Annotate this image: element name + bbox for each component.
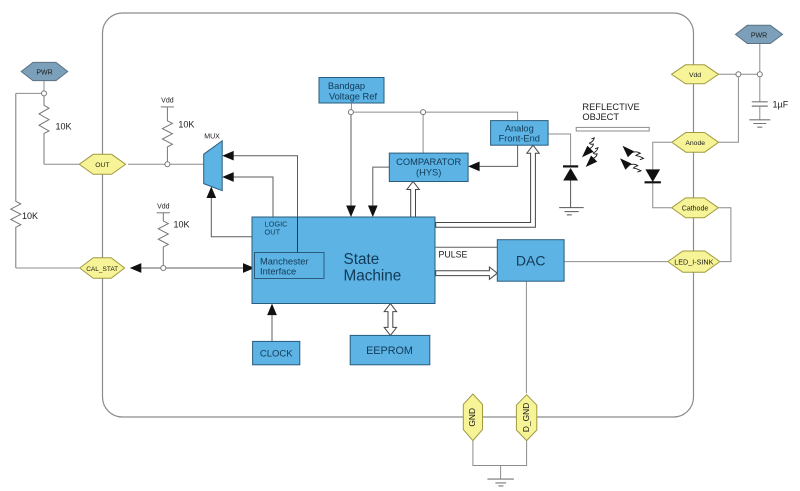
PWR terminal (left): [21, 62, 67, 80]
pin Anode: [672, 133, 719, 153]
svg-text:Cathode: Cathode: [682, 206, 709, 213]
svg-text:OBJECT: OBJECT: [582, 112, 619, 122]
svg-text:MUX: MUX: [204, 134, 220, 141]
wire photodiode to ground: [570, 181, 572, 208]
arrowhead into comparator right: [468, 162, 480, 172]
capacitor C1 plates: [752, 102, 768, 120]
pin D_GND (rotated): [516, 395, 536, 441]
wire LED to Cathode: [653, 182, 672, 208]
arrowhead into SM from comparator: [368, 206, 378, 218]
wire to capacitor C1: [759, 77, 761, 102]
hollow arrow SM to COMPARATOR: [407, 182, 419, 218]
svg-text:Machine: Machine: [344, 267, 402, 284]
light ray into photodiode A: [582, 138, 594, 157]
junction node (Vdd row 1): [736, 72, 741, 77]
hollow arrow SM to DAC: [436, 267, 498, 279]
wire PULSE: [436, 246, 498, 248]
wire Bandgap stem: [350, 103, 352, 110]
State Machine box U1: [252, 217, 435, 304]
svg-text:EEPROM: EEPROM: [366, 345, 413, 357]
ground symbol (bottom): [487, 479, 514, 486]
svg-text:Interface: Interface: [260, 267, 296, 277]
Analog Front-End box: [491, 121, 548, 146]
wire junction2 to comparator top: [422, 115, 424, 154]
svg-text:PWR: PWR: [36, 70, 52, 77]
svg-text:LED_I-SINK: LED_I-SINK: [674, 257, 713, 266]
arrowhead MUX input2: [222, 172, 234, 182]
wire R1 to OUT: [44, 163, 80, 165]
svg-text:Analog: Analog: [505, 123, 534, 133]
COMPARATOR (HYS) box: [389, 153, 468, 181]
resistor R3 10K (Vdd pull-up to OUT): [162, 107, 172, 162]
svg-text:PWR: PWR: [751, 32, 767, 39]
svg-text:Vdd: Vdd: [157, 204, 170, 211]
svg-text:Vdd: Vdd: [161, 98, 174, 105]
wire R2 to CAL_STAT: [16, 267, 80, 269]
wire DAC to LED_I-SINK: [564, 261, 668, 263]
EEPROM box: [350, 335, 430, 364]
wire Anode to LED: [653, 142, 672, 169]
arrowhead CLOCK: [267, 304, 277, 316]
CLOCK box: [253, 341, 300, 364]
DAC box: [497, 240, 564, 282]
wire AFE to photodiode: [548, 134, 571, 165]
IC boundary rounded rectangle: [103, 13, 694, 417]
pin OUT: [79, 154, 125, 174]
junction node (Vdd row 2): [757, 72, 762, 77]
junction node (OUT row): [165, 162, 170, 167]
pin LED_I-SINK: [668, 251, 720, 272]
light ray from LED A: [623, 146, 644, 160]
light ray into photodiode B: [586, 148, 598, 167]
svg-text:(HYS): (HYS): [416, 168, 441, 178]
svg-text:Bandgap: Bandgap: [328, 81, 365, 91]
wire CLOCK to State Machine: [271, 315, 273, 342]
svg-text:CAL_STAT: CAL_STAT: [86, 266, 118, 273]
light ray from LED B: [620, 158, 641, 172]
wire Cathode loop to LED_I-SINK: [718, 208, 731, 262]
svg-text:PULSE: PULSE: [439, 250, 468, 260]
svg-text:OUT: OUT: [95, 162, 109, 169]
resistor R4 10K (Vdd pull-up to CAL_STAT): [158, 213, 168, 266]
svg-text:10K: 10K: [22, 211, 38, 221]
ground symbol (top right): [749, 120, 770, 127]
junction node (bandgap): [348, 110, 353, 115]
resistor R2 10K (far left): [11, 93, 21, 268]
wire OUT row to MUX: [128, 163, 204, 165]
Manchester Interface block: [255, 253, 325, 279]
wire junction2 to AFE top: [426, 112, 518, 121]
wire PWR2 stem: [759, 44, 761, 72]
svg-text:D_GND: D_GND: [521, 403, 531, 432]
wire AFE out to comparator: [480, 145, 518, 166]
wire DAC to D_GND: [525, 281, 527, 393]
svg-text:10K: 10K: [174, 220, 190, 230]
svg-text:Anode: Anode: [685, 140, 705, 147]
wire junction to far-left rail: [16, 92, 44, 94]
svg-text:Voltage Ref: Voltage Ref: [329, 91, 377, 101]
svg-text:Front-End: Front-End: [499, 133, 540, 143]
wire Vdd pin to PWR2 circles: [719, 73, 760, 75]
ground symbol (photodiode): [559, 208, 584, 215]
arrowhead MUX input1: [222, 151, 234, 161]
svg-text:Vdd: Vdd: [689, 72, 701, 79]
resistor R1 10K (under PWR): [39, 96, 49, 164]
wire comparator out to State Machine: [373, 167, 390, 206]
wire MUX input1 overlay segment (over State Machine): [297, 217, 299, 253]
wire PWR1 to junction: [43, 81, 45, 93]
Vdd supply symbol R4: [157, 204, 170, 213]
hollow double arrow SM to EEPROM: [384, 304, 396, 336]
wire Vdd circle down to Anode: [719, 77, 739, 143]
arrowhead to CAL_STAT: [130, 263, 142, 273]
svg-text:State: State: [344, 251, 380, 268]
svg-text:REFLECTIVE: REFLECTIVE: [582, 102, 639, 112]
svg-text:DAC: DAC: [516, 253, 546, 269]
wire junction row to comparator branch and AFE: [353, 111, 420, 113]
wire Bandgap junction to State Machine (arrow): [350, 115, 352, 207]
svg-text:COMPARATOR: COMPARATOR: [396, 157, 461, 167]
arrowhead to Manchester: [243, 263, 255, 273]
PWR terminal (right): [736, 25, 783, 43]
reflective object bar: [576, 127, 649, 131]
svg-text:CLOCK: CLOCK: [260, 349, 293, 360]
svg-text:Manchester: Manchester: [260, 257, 309, 267]
Vdd supply symbol R3: [161, 98, 174, 107]
junction node (PWR1): [42, 91, 47, 96]
pin Vdd: [672, 65, 719, 84]
svg-text:10K: 10K: [56, 122, 72, 132]
svg-text:1µF: 1µF: [773, 100, 789, 110]
wire MUX input1 from Manchester: [234, 156, 298, 253]
arrowhead into SM from bandgap: [346, 206, 356, 218]
arrowhead MUX select: [206, 187, 216, 199]
svg-text:GND: GND: [467, 408, 477, 427]
wire CAL_STAT to Manchester (bidirectional): [141, 267, 244, 269]
photodiode D1 (cathode bar on top, triangle pointing up): [563, 166, 578, 180]
label REFLECTIVE OBJECT: [582, 102, 639, 122]
MUX multiplexer: [204, 134, 223, 191]
hollow arrow SM to Analog Front-End: [436, 145, 540, 227]
pin GND (rotated): [463, 394, 482, 441]
pin CAL_STAT: [80, 258, 125, 279]
LED D2: [645, 169, 661, 182]
junction node (CAL_STAT row): [161, 266, 166, 271]
pin Cathode: [672, 198, 719, 218]
svg-text:10K: 10K: [178, 120, 194, 130]
wire MUX input2 from State Machine: [234, 177, 274, 217]
Bandgap Voltage Ref box: [319, 78, 384, 104]
wire GND pins to ground: [473, 441, 527, 480]
junction node (comparator branch): [421, 110, 426, 115]
svg-text:OUT: OUT: [265, 228, 281, 237]
wire MUX select from LOGIC OUT: [211, 198, 252, 237]
